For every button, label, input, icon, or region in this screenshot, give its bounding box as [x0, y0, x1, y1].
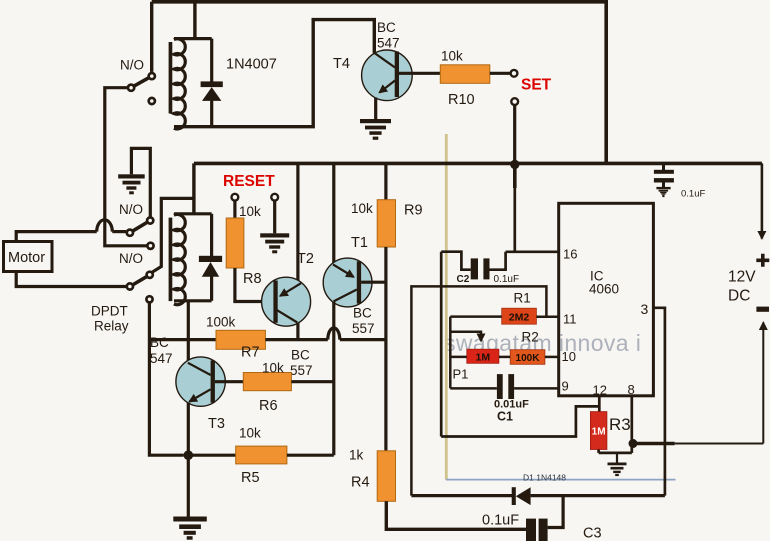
wire: rail to relay1 coil top	[193, 2, 196, 39]
ground staple of DPDT pole1 pivot	[131, 148, 150, 217]
svg-text:C1: C1	[497, 410, 513, 424]
symbol plus	[756, 254, 769, 267]
wire: T3 base to R6	[215, 380, 243, 383]
svg-text:557: 557	[290, 363, 313, 378]
wire: R7 to T2 collector junction	[265, 338, 327, 341]
wire: bottom wire to pin12 jog	[441, 406, 599, 436]
resistor R10	[440, 65, 490, 84]
svg-text:0.1uF: 0.1uF	[482, 513, 519, 529]
wire: pin12 down to R3	[598, 396, 601, 412]
svg-text:BC: BC	[353, 306, 372, 321]
diode D3 triangle	[202, 262, 219, 277]
wire: R3 bottom	[599, 450, 632, 453]
wire: T4 emitter to ground	[374, 98, 377, 120]
wire: S1 arm to DPDT pole1 lower contact	[105, 88, 147, 246]
switch S1 pivot contact	[149, 73, 155, 79]
wire hop over vertical	[97, 220, 113, 232]
svg-text:2M2: 2M2	[509, 311, 530, 323]
transistor T1 emitter line	[333, 264, 354, 277]
wire: SET lower terminal to rail2	[513, 105, 516, 164]
wire: dot to main ground	[187, 455, 190, 516]
resistor R8	[226, 218, 244, 268]
svg-text:R9: R9	[404, 203, 423, 219]
svg-text:R8: R8	[243, 271, 262, 287]
ground near relay	[118, 174, 145, 194]
capacitor 0.1uF top right plates	[654, 165, 674, 188]
svg-text:C3: C3	[583, 526, 602, 541]
junction dot rail2/SET	[510, 160, 519, 169]
svg-text:1N4007: 1N4007	[226, 57, 277, 73]
wire: R4 to C3	[386, 501, 526, 529]
svg-text:8: 8	[628, 382, 635, 397]
ground of R3	[616, 453, 618, 463]
wire: T1 collector down to R5 line	[332, 302, 335, 456]
wire: R1 left lead	[450, 315, 501, 318]
wire: relay RL2 box top	[174, 212, 212, 215]
wire: C2 right lead	[489, 252, 505, 270]
svg-text:10k: 10k	[351, 201, 373, 216]
resistor R9	[377, 200, 395, 247]
svg-text:9: 9	[562, 379, 569, 394]
wire: relay RL1 bottom to T4 collector	[174, 20, 374, 127]
DPDT pole2 pivot contact	[147, 272, 153, 278]
wire: R8 to T2 base	[235, 268, 274, 302]
transistor T2 body	[262, 277, 311, 326]
motor box	[4, 242, 53, 272]
wire: rail2 to T2 emitter	[296, 163, 299, 280]
wire: R10 to SET	[490, 72, 510, 75]
svg-text:1M: 1M	[476, 351, 491, 363]
svg-text:N/O: N/O	[119, 202, 143, 217]
wire: DPDT pole2 pivot to relay feeder	[152, 198, 194, 272]
svg-text:12V: 12V	[728, 269, 756, 286]
terminal SET lower	[511, 98, 518, 105]
wire: R1 right lead to pin11	[536, 316, 558, 319]
wire: dot to R5	[188, 454, 235, 457]
terminal SET upper	[511, 70, 518, 77]
wire: rail2 to T1 emitter	[332, 163, 335, 263]
tan watermark line	[445, 134, 448, 480]
switch DPDT pole2 arm	[130, 275, 150, 287]
svg-text:10k: 10k	[262, 361, 284, 376]
wire: T3 emitter down	[187, 403, 190, 456]
wire: C2 left lead to outer vertical	[441, 252, 471, 270]
wire: relay RL2 bottom to T3 collector	[187, 301, 190, 363]
capacitor C2 plates	[471, 258, 478, 279]
svg-text:0.1uF: 0.1uF	[494, 274, 520, 285]
transistor T4 body	[362, 50, 413, 101]
switch S1 open contact	[149, 98, 155, 104]
wire: R5 to T1 collector line	[287, 454, 334, 457]
relay RL2 coil	[174, 214, 185, 304]
wire: 12V plus arrow	[761, 163, 764, 238]
resistor R7	[216, 330, 265, 349]
switch DPDT pole1 arm	[130, 221, 150, 233]
wire: T2 collector down	[296, 323, 299, 340]
relay RL2 coil core bar	[169, 218, 173, 302]
wire: C3 right to D1 line	[548, 496, 564, 528]
wire: relay RL2 right side lower	[210, 275, 213, 301]
wire hop over T1 collector	[328, 328, 340, 340]
transistor T3 emitter line	[190, 389, 211, 401]
wire: relay RL2 right side upper	[210, 214, 213, 256]
wire: pin9 left lead	[450, 387, 497, 390]
svg-text:RESET: RESET	[223, 173, 275, 190]
capacitor C1 plates	[497, 374, 503, 399]
svg-text:100k: 100k	[206, 315, 236, 330]
wire: rail2 to R9	[384, 163, 387, 199]
resistor R5	[236, 446, 287, 464]
wire: hop to R9/R4 line	[340, 338, 386, 341]
junction dot pin8/negative	[629, 439, 638, 448]
svg-text:16: 16	[563, 247, 577, 262]
svg-text:BC: BC	[291, 348, 310, 363]
svg-text:10k: 10k	[239, 204, 261, 219]
svg-text:Motor: Motor	[8, 250, 45, 266]
svg-text:SET: SET	[521, 77, 552, 94]
wire: relay RL1 box top	[174, 37, 212, 40]
svg-text:547: 547	[150, 351, 173, 366]
wire: T1 base to R9 line	[361, 281, 386, 284]
svg-text:1k: 1k	[349, 448, 364, 463]
blue watermark line	[446, 479, 676, 481]
wire: D1 line right to pin3	[531, 494, 665, 497]
wire: negative line right	[633, 442, 675, 445]
svg-text:DPDT: DPDT	[91, 304, 128, 319]
wire: RESET left to R8	[233, 201, 236, 218]
transistor T1 body	[323, 258, 372, 307]
svg-text:P1: P1	[453, 367, 469, 382]
wire: rail to relay1 switch	[150, 2, 153, 72]
transistor T3 body	[176, 357, 225, 406]
wire: outer left vertical C2 to bottom	[440, 252, 443, 437]
resistor R6	[243, 373, 291, 391]
svg-text:10: 10	[562, 349, 576, 364]
resistor R2 100K	[510, 350, 545, 365]
DPDT pole2 arm contact	[127, 283, 133, 289]
svg-text:C2: C2	[457, 274, 470, 285]
wire: DPDT lower contact down left rail	[149, 303, 183, 455]
wire: R7 line left	[149, 338, 216, 341]
relay RL1 coil	[174, 39, 185, 129]
ground main bottom	[173, 517, 207, 540]
transistor T1 base bar	[357, 261, 361, 303]
symbol minus	[756, 307, 769, 312]
svg-text:3: 3	[641, 301, 649, 317]
DPDT pole1 arm contact	[127, 230, 133, 236]
ground of RESET	[260, 233, 289, 253]
transistor T3 collector line	[188, 363, 211, 375]
wire: minus arrow from negative line	[762, 323, 764, 444]
svg-text:R1: R1	[514, 291, 531, 306]
svg-text:4060: 4060	[589, 282, 619, 297]
wire: pot row middle	[499, 356, 510, 359]
junction dot T3 emitter/R5	[184, 450, 194, 460]
potentiometer P1 1M	[467, 349, 499, 363]
DPDT pole1 pivot contact	[147, 217, 153, 223]
diode D1 1N4148 cathode bar	[512, 487, 516, 505]
IC U1 4060 box	[559, 203, 654, 395]
switch S1 arm contact	[128, 85, 134, 91]
svg-text:12: 12	[593, 383, 607, 398]
wire: supply to pin16	[513, 164, 517, 188]
wire: second supply rail	[194, 162, 762, 166]
svg-text:T1: T1	[351, 235, 368, 251]
transistor T2 emitter line	[280, 283, 301, 296]
transistor T2 base bar	[273, 281, 277, 323]
transistor T2 collector line	[277, 310, 298, 323]
wire: pin16 horizontal	[506, 250, 559, 253]
svg-text:DC: DC	[728, 288, 750, 305]
svg-text:1M: 1M	[592, 427, 606, 438]
svg-text:R3: R3	[609, 415, 631, 434]
wire: C1 to pin9	[514, 387, 559, 390]
wire: motor top lead	[16, 232, 97, 242]
svg-text:100K: 100K	[516, 353, 541, 364]
DPDT pole1 lower contact	[147, 243, 153, 249]
svg-text:R4: R4	[351, 475, 370, 491]
svg-text:0.1uF: 0.1uF	[681, 189, 705, 200]
switch S1 arm	[131, 76, 152, 88]
wire: R2 to pin10	[545, 356, 559, 359]
wire: R9 down through T1 base junction to R4	[384, 247, 387, 451]
wire: pin11 line to D1 line left vertical	[411, 286, 546, 495]
wire: relay RL1 right side lower	[210, 100, 213, 127]
svg-text:Relay: Relay	[94, 319, 129, 334]
wire: relay RL2 box bottom	[174, 299, 212, 302]
diode D2 1N4007 cathode bar	[201, 81, 223, 87]
svg-text:BC: BC	[150, 335, 169, 350]
ground of T4	[360, 119, 391, 140]
transistor T1 collector line	[334, 290, 357, 302]
svg-text:BC: BC	[377, 20, 396, 35]
resistor R1 2M2	[502, 308, 537, 324]
wire: inner left vertical	[449, 317, 452, 389]
wire: hop to pole1 arm	[112, 230, 126, 233]
transistor T4 collector line	[375, 53, 396, 68]
svg-text:N/O: N/O	[120, 58, 144, 73]
diode D3 cathode bar	[199, 256, 222, 262]
svg-text:10k: 10k	[239, 426, 261, 441]
terminal RESET right	[271, 194, 278, 201]
svg-text:R7: R7	[241, 345, 260, 361]
svg-text:R5: R5	[241, 470, 260, 486]
DPDT pole2 lower contact	[146, 296, 152, 302]
resistor R3 1M	[590, 412, 607, 450]
svg-text:D1 1N4148: D1 1N4148	[523, 473, 566, 483]
svg-text:T2: T2	[297, 251, 314, 267]
svg-text:T4: T4	[333, 56, 350, 72]
wire: rail2 down to relay RL2 coil top	[192, 163, 195, 213]
wire: RESET right to ground	[273, 201, 276, 234]
transistor T4 base bar	[395, 52, 399, 98]
terminal RESET left	[232, 194, 239, 201]
svg-text:547: 547	[377, 36, 400, 51]
wire: pin3 to D1 line	[653, 308, 665, 496]
svg-text:11: 11	[563, 312, 577, 327]
wire: T4 base to R10	[399, 72, 440, 75]
diode D2 1N4007 triangle	[202, 87, 221, 101]
svg-text:T3: T3	[208, 416, 225, 432]
resistor R4	[377, 451, 395, 502]
wire: pin8 down	[630, 396, 633, 453]
wire: relay RL1 right side upper	[210, 39, 213, 82]
capacitor C3 plates	[526, 519, 536, 541]
wire: motor bottom lead	[16, 272, 126, 287]
diode D1 triangle	[516, 487, 531, 505]
svg-text:R6: R6	[259, 398, 278, 414]
ground of 0.1uF cap	[656, 187, 670, 197]
transistor T3 base bar	[211, 360, 215, 402]
wire: R6 to T1 collector line	[291, 380, 333, 383]
svg-text:10k: 10k	[441, 49, 463, 64]
wire: pot row left	[450, 356, 467, 359]
svg-text:R10: R10	[448, 92, 475, 108]
transistor T4 emitter line	[380, 81, 396, 93]
svg-text:R2: R2	[522, 330, 539, 345]
wire: D1 line left	[411, 494, 512, 497]
relay RL1 coil core bar	[169, 42, 173, 114]
wire: P1 wiper staple	[450, 332, 481, 341]
wire: top supply rail	[152, 2, 607, 164]
svg-text:557: 557	[352, 321, 375, 336]
svg-text:N/O: N/O	[119, 251, 143, 266]
